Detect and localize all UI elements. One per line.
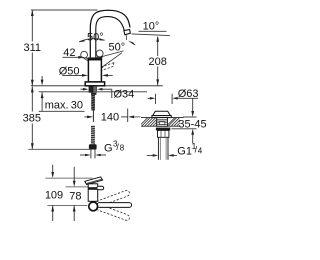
base plinth (85, 82, 104, 86)
waste cap flange (152, 116, 171, 118)
faucet body (88, 60, 101, 82)
dimension 109 (52, 165, 54, 173)
Ø34 label with arrows (83, 88, 89, 91)
hose end nut (89, 144, 97, 149)
10° angle lines (139, 30, 167, 32)
bottom extension line (385 end / G3/8 level) (28, 148, 90, 150)
svg-text:Ø63: Ø63 (178, 88, 199, 100)
swivelled spout dashed (100, 63, 114, 71)
svg-text:8: 8 (120, 143, 125, 152)
lever capsule (97, 203, 132, 208)
deck bottom line (39, 91, 89, 93)
side-view neck (88, 184, 98, 202)
cartridge cap (88, 57, 103, 59)
mounting shank (89, 86, 97, 92)
extension line lever axis (47, 204, 87, 206)
dimension 311/385 vertical line (31, 10, 33, 148)
svg-text:50°: 50° (87, 32, 104, 44)
svg-text:109: 109 (45, 189, 63, 201)
svg-text:35-45: 35-45 (178, 118, 206, 130)
svg-text:Ø34: Ø34 (114, 88, 135, 100)
swivel angle legs (98, 51, 124, 58)
waste tailpipe (158, 137, 168, 160)
gooseneck spout inner (96, 17, 124, 58)
dashed lever down position (97, 204, 130, 220)
faucet front view: gooseneck spout outer (90, 10, 130, 57)
top extension line (spout top level) (31, 9, 98, 11)
centerline below rod (92, 110, 94, 121)
svg-text:385: 385 (23, 113, 41, 125)
50° swing arc (handle) (79, 39, 104, 42)
G1 1/4 arrows (147, 154, 153, 156)
waste cap dome (153, 111, 171, 115)
dashed lever up position (97, 191, 130, 207)
svg-text:G: G (104, 142, 113, 154)
extension line 109 (spout top level) (46, 177, 93, 179)
svg-text:140: 140 (101, 112, 119, 124)
waste locknut (158, 130, 169, 137)
svg-text:max. 30: max. 30 (45, 99, 83, 111)
ghost handle knob right (96, 50, 103, 57)
side-view handle base ledge (97, 186, 104, 190)
dimension 78 (73, 167, 75, 181)
svg-text:50°: 50° (108, 42, 125, 54)
dimension max.30 line (39, 76, 85, 111)
extension line 78 (handle level) (66, 186, 90, 188)
svg-text:311: 311 (24, 42, 42, 54)
svg-text:208: 208 (149, 56, 167, 68)
stream/leader arrowheads at aerator (117, 38, 125, 44)
braided hose (91, 126, 95, 144)
G3/8 arrows (80, 154, 86, 156)
svg-text:G1: G1 (177, 145, 192, 157)
side-view spout bar (85, 177, 103, 185)
35-45 dimension (192, 99, 194, 112)
waste seal washer (156, 128, 170, 131)
dimension 208 (157, 37, 159, 85)
G3/8 stub (91, 150, 95, 159)
mounting nut (91, 93, 96, 95)
ghost handle knob left (81, 51, 88, 58)
aerator (124, 30, 130, 35)
svg-text:10°: 10° (143, 21, 160, 33)
dimension 140 (84, 116, 87, 118)
threaded rod (91, 95, 95, 111)
deck top line (31, 85, 163, 87)
pivot ring (89, 202, 98, 211)
water stream stub (125, 35, 127, 40)
svg-text:78: 78 (69, 190, 81, 202)
drain deck hatched section (141, 117, 184, 119)
waste body in deck (157, 118, 168, 127)
Ø63 dimension (148, 97, 151, 99)
svg-text:4: 4 (198, 147, 203, 156)
